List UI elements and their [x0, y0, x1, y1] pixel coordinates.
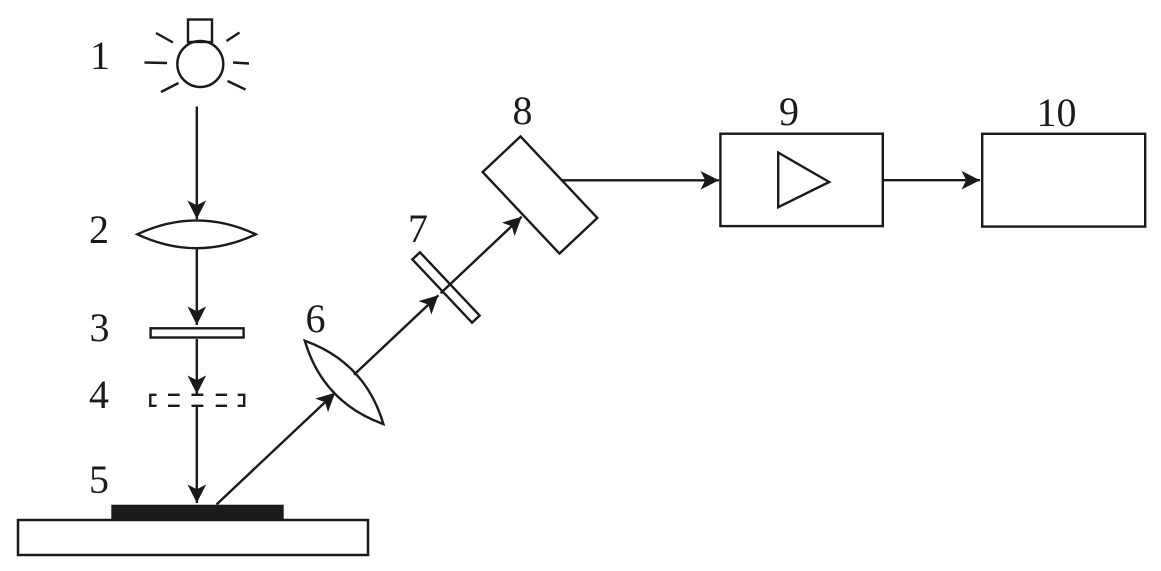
svg-text:7: 7 [408, 206, 428, 251]
svg-text:4: 4 [89, 372, 109, 417]
lamp ray upper-right [227, 33, 240, 42]
sample strip 5 [111, 505, 283, 520]
stage [18, 520, 368, 555]
recorder box 10 [982, 134, 1145, 227]
lamp ray lower-left [161, 83, 179, 92]
filter 3 [151, 328, 244, 337]
lamp ray upper-left [156, 33, 173, 43]
beam sample to lens 6 [217, 393, 336, 505]
amplifier box 9 [720, 134, 882, 226]
arrow filter 3 to aperture 4 [196, 339, 198, 394]
filter 7 [412, 252, 479, 322]
amplifier triangle [778, 153, 829, 208]
lens 2 [137, 220, 256, 248]
beam lens 6 to filter 7 [354, 295, 438, 375]
svg-text:3: 3 [90, 305, 110, 350]
svg-text:2: 2 [89, 207, 109, 252]
detector 8 [483, 136, 598, 253]
svg-text:6: 6 [306, 296, 326, 341]
lamp bulb circle [177, 41, 223, 87]
aperture 4 dashed rect [150, 395, 244, 406]
svg-text:10: 10 [1037, 90, 1077, 135]
lamp ray right [233, 63, 249, 64]
arrow aperture 4 to sample 5 [196, 406, 198, 503]
svg-text:1: 1 [90, 33, 110, 78]
lamp ray left [145, 61, 168, 64]
lamp ray lower-right [228, 81, 246, 90]
arrow lens 2 to filter 3 [196, 248, 198, 326]
svg-text:8: 8 [513, 88, 533, 133]
arrow lamp to lens 2 [196, 107, 198, 220]
lens 6 [294, 331, 394, 434]
arrow detector 8 to amplifier 9 [562, 179, 719, 181]
svg-text:9: 9 [779, 89, 799, 134]
svg-text:5: 5 [89, 457, 109, 502]
beam filter 7 to detector 8 [441, 217, 522, 294]
lamp base square [188, 20, 212, 43]
arrow amplifier 9 to recorder 10 [883, 179, 980, 181]
